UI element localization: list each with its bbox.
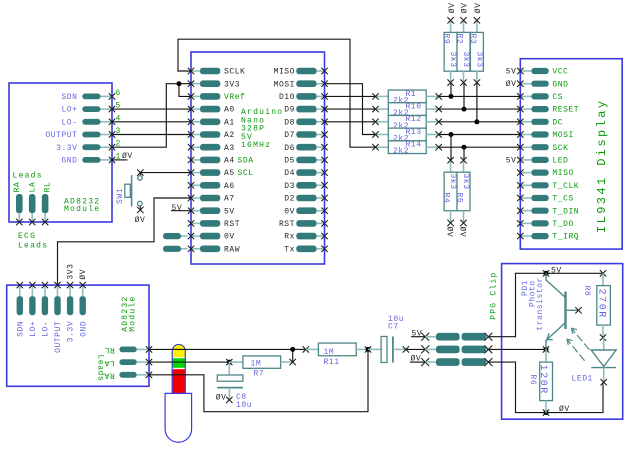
junction emitter / R6 top — [543, 346, 549, 352]
svg-text:ØV: ØV — [411, 355, 422, 364]
svg-text:SDN: SDN — [61, 93, 77, 102]
R6 reference label — [528, 375, 537, 386]
svg-text:D2: D2 — [284, 195, 295, 204]
svg-text:D5: D5 — [284, 157, 295, 166]
svg-text:1M: 1M — [251, 359, 262, 368]
svg-text:LED1: LED1 — [572, 374, 593, 383]
power 0V above R2 — [461, 2, 470, 13]
svg-text:ØV: ØV — [457, 227, 466, 238]
wire R13 to display MOSI — [439, 134, 521, 136]
wire R7 right up to tip row — [292, 349, 294, 362]
svg-text:A0: A0 — [224, 106, 235, 115]
junction R7 left / C8 — [227, 360, 232, 365]
svg-text:MOSI: MOSI — [274, 80, 295, 89]
wire D10 to R1 — [325, 95, 376, 97]
PPG Clip label vertical — [490, 271, 499, 319]
svg-text:Tx: Tx — [284, 245, 295, 254]
wire U3 RL tip row to R7/R11 node — [149, 348, 293, 350]
DS1 pins VCC..T_IRQ with pads — [517, 68, 579, 242]
wire U2 3.3V pin2 to U1 3V3 — [112, 84, 191, 148]
svg-text:Module: Module — [128, 295, 137, 331]
svg-text:120R: 120R — [537, 365, 548, 395]
power 0V label in clip — [559, 405, 570, 414]
resistor R7 1M — [226, 356, 296, 379]
switch SW1 push button — [125, 169, 144, 213]
svg-text:D6: D6 — [284, 144, 295, 153]
connector J1 TRS audio jack plug — [165, 344, 192, 442]
wire U3 RA sleeve row to ground loop — [149, 349, 368, 411]
svg-text:RESET: RESET — [552, 106, 579, 115]
wire R1 to display CS — [439, 95, 521, 97]
connector J2 PPG cable pads — [421, 333, 492, 366]
transistor PD1 photo transistor — [546, 273, 582, 349]
svg-text:VCC: VCC — [552, 68, 568, 77]
junction CS/R9 — [449, 94, 454, 99]
svg-text:A3: A3 — [224, 144, 235, 153]
svg-text:0V: 0V — [284, 207, 295, 216]
resistor R13 2k2 — [372, 128, 442, 144]
R8 reference label — [582, 286, 591, 297]
svg-text:R3: R3 — [468, 34, 477, 45]
svg-text:Rx: Rx — [284, 233, 295, 242]
svg-text:LO+: LO+ — [29, 321, 38, 337]
svg-text:A2: A2 — [224, 131, 235, 140]
PD1 labels PD1 Photo transistor — [521, 277, 545, 331]
svg-text:A7: A7 — [224, 195, 235, 204]
svg-text:GND: GND — [552, 80, 568, 89]
U2 lead pads RA LA RL (bottom) — [13, 182, 53, 226]
svg-text:3.3V: 3.3V — [67, 321, 76, 342]
wire SCLK to R14 (net SCK) — [178, 39, 376, 147]
svg-text:R6: R6 — [528, 375, 537, 386]
svg-text:R4: R4 — [441, 193, 450, 204]
svg-text:LA: LA — [29, 182, 38, 193]
resistor R8 270R vertical — [595, 270, 610, 341]
U1 right pins MISO..Tx with pads — [274, 68, 328, 255]
wire J2 5V into clip — [488, 273, 603, 336]
svg-text:Module: Module — [64, 205, 100, 214]
junction MOSI/R4 — [449, 132, 454, 137]
DS1 value IL9341 Display vertical — [595, 99, 609, 233]
svg-text:5V: 5V — [224, 207, 235, 216]
power 0V at C8 — [216, 394, 227, 403]
svg-text:R5: R5 — [454, 193, 463, 204]
svg-text:R8: R8 — [582, 286, 591, 297]
svg-text:10u: 10u — [236, 401, 252, 410]
junction 3V3/VRef — [177, 81, 182, 86]
svg-text:A6: A6 — [224, 182, 235, 191]
wire MOSI to R13 — [325, 84, 376, 135]
svg-text:ECG: ECG — [18, 232, 36, 241]
junction tip row / R7 — [290, 347, 295, 352]
resistor R2 3k3 vertical — [455, 17, 471, 86]
svg-text:D9: D9 — [284, 106, 295, 115]
svg-text:LO+: LO+ — [61, 106, 77, 115]
svg-text:RA: RA — [104, 371, 115, 380]
module U3 AD8232 ECG module (bottom-left) — [7, 285, 149, 386]
svg-text:ØV: ØV — [216, 394, 227, 403]
svg-text:MISO: MISO — [552, 169, 573, 178]
power 5V label in clip — [551, 267, 562, 276]
svg-text:OUTPUT: OUTPUT — [54, 321, 63, 353]
power 0V at U3 GND pin — [79, 269, 88, 280]
wire J2 signal to PD1 emitter / R6 — [488, 348, 546, 350]
wire U2 OUTPUT pin3 to A2 — [112, 134, 191, 136]
svg-text:C7: C7 — [388, 323, 399, 332]
svg-text:ØV: ØV — [474, 2, 483, 13]
svg-text:D3: D3 — [284, 182, 295, 191]
svg-text:RL: RL — [44, 182, 53, 193]
svg-text:5V: 5V — [551, 267, 562, 276]
svg-text:T_CS: T_CS — [552, 195, 573, 204]
wire U2 LO+ pin5 to A0 — [112, 108, 191, 110]
svg-text:A4: A4 — [224, 157, 235, 166]
SW1 reference label — [116, 188, 125, 204]
svg-text:Leads: Leads — [18, 242, 48, 251]
resistor R5 3k3 vertical — [454, 157, 470, 226]
svg-text:R11: R11 — [324, 358, 340, 367]
svg-text:ØV: ØV — [461, 2, 470, 13]
svg-text:3k3: 3k3 — [474, 52, 483, 68]
junction R11 right / C7 / ground loop — [366, 347, 371, 352]
wire A5 to SW1 — [140, 172, 191, 174]
capacitor C8 10u polarized — [217, 362, 252, 410]
svg-text:D7: D7 — [284, 131, 295, 140]
power 0V below R5 — [457, 227, 466, 238]
svg-text:SCLK: SCLK — [224, 68, 245, 77]
power 5V at display VCC — [506, 67, 517, 76]
svg-text:IL9341 Display: IL9341 Display — [595, 99, 609, 233]
svg-text:R7: R7 — [254, 370, 265, 379]
svg-text:T_DO: T_DO — [552, 220, 573, 229]
U2 right-side pins SDN LO+ LO- OUTPUT 3.3V GND with pads — [45, 89, 120, 166]
resistor R10 2k2 — [372, 103, 442, 119]
power 0V below R4 — [444, 227, 453, 238]
svg-text:3k3: 3k3 — [461, 174, 470, 190]
module DS1 IL9341 Display box — [520, 59, 622, 249]
module U1 Arduino Nano box — [191, 52, 325, 264]
svg-text:3.3V: 3.3V — [56, 144, 77, 153]
svg-text:GND: GND — [61, 157, 77, 166]
svg-text:DC: DC — [552, 118, 563, 127]
wire R5 to SCK net — [463, 147, 465, 160]
svg-text:3V3: 3V3 — [67, 264, 76, 280]
module U2 AD8232 ECG module (top-left) — [9, 83, 112, 222]
svg-text:RST: RST — [224, 220, 240, 229]
LED LED1 — [567, 328, 616, 385]
svg-text:0V: 0V — [224, 233, 235, 242]
power 5V at display LED — [506, 156, 517, 165]
U1 external pads on 0V and RAW pins — [163, 233, 188, 252]
junction DC/R3 — [474, 119, 479, 124]
power 0V at display GND — [506, 80, 517, 89]
U1 left pins SCLK..RAW with pads — [188, 68, 246, 255]
power 5V label at U1 5V pin — [171, 204, 191, 213]
svg-text:Leads: Leads — [96, 355, 105, 382]
wire C7 to connector — [406, 348, 425, 350]
wire U2 LO- pin4 to A1 — [112, 121, 191, 123]
wire R3 to DC net — [476, 83, 478, 122]
svg-text:270R: 270R — [595, 289, 606, 319]
svg-text:16MHz: 16MHz — [241, 141, 271, 150]
power 0V at J2 pin3 — [410, 355, 425, 364]
svg-text:CS: CS — [552, 93, 563, 102]
svg-text:R9: R9 — [442, 34, 451, 45]
resistor R3 3k3 vertical — [468, 17, 484, 86]
wire A7 to ECG module 2 OUTPUT — [58, 198, 192, 285]
svg-text:ØV: ØV — [122, 152, 133, 161]
LED1 reference label — [572, 374, 593, 383]
power 5V at J2 pin1 — [411, 329, 425, 338]
svg-text:SDA: SDA — [238, 157, 254, 166]
wire D8 to R12 — [325, 121, 376, 123]
svg-text:RL: RL — [104, 345, 115, 354]
svg-text:2k2: 2k2 — [393, 147, 409, 156]
U3 right pins RL LA RA with pads — [104, 345, 152, 379]
svg-text:5V: 5V — [172, 204, 183, 213]
module PPG Clip box — [502, 264, 623, 420]
resistor R12 2k2 — [372, 115, 442, 131]
svg-text:ØV: ØV — [135, 216, 146, 225]
svg-text:ØV: ØV — [444, 227, 453, 238]
svg-text:OUTPUT: OUTPUT — [45, 131, 77, 140]
svg-text:3k3: 3k3 — [461, 52, 470, 68]
svg-text:Leads: Leads — [13, 172, 43, 181]
resistor R14 2k2 — [372, 141, 442, 157]
svg-text:3V3: 3V3 — [224, 80, 240, 89]
wire D9 to R10 — [325, 108, 376, 110]
svg-text:R2: R2 — [455, 34, 464, 45]
svg-text:LA: LA — [104, 358, 115, 367]
svg-text:3k3: 3k3 — [448, 52, 457, 68]
U1 pin labels SDA SCL — [238, 157, 254, 179]
resistor R1 2k2 — [372, 90, 442, 106]
svg-text:ØV: ØV — [559, 405, 570, 414]
capacitor C7 10u polarized — [368, 315, 409, 363]
U2 value AD8232 Module — [64, 198, 100, 214]
label ECG Leads — [18, 232, 48, 251]
resistor R4 3k3 vertical — [441, 157, 457, 226]
svg-text:3k3: 3k3 — [448, 174, 457, 190]
svg-text:RST: RST — [279, 220, 295, 229]
wire R2 to RESET net — [463, 83, 465, 110]
wire R14 to display SCK — [439, 146, 521, 148]
svg-text:GND: GND — [79, 321, 88, 337]
svg-text:LED: LED — [552, 157, 568, 166]
power 3V3 at U3 3.3V pin — [67, 264, 76, 280]
svg-text:D8: D8 — [284, 118, 295, 127]
svg-text:MOSI: MOSI — [552, 131, 573, 140]
svg-text:VRef: VRef — [224, 93, 245, 102]
wire U3 LA ring row to R7 input — [149, 361, 229, 363]
svg-text:1M: 1M — [324, 348, 335, 357]
svg-text:SCL: SCL — [238, 169, 254, 178]
svg-text:RAW: RAW — [224, 245, 240, 254]
junction RESET/R2 — [462, 107, 467, 112]
svg-text:T_CLK: T_CLK — [552, 182, 579, 191]
svg-text:A5: A5 — [224, 169, 235, 178]
power 0V at U2 pin1 GND — [112, 152, 133, 161]
svg-text:MISO: MISO — [274, 68, 295, 77]
svg-text:ØV: ØV — [79, 269, 88, 280]
svg-text:5V: 5V — [506, 67, 517, 76]
junction SCK/R5 — [462, 145, 467, 150]
svg-text:SDN: SDN — [16, 321, 25, 337]
svg-text:A1: A1 — [224, 118, 235, 127]
U3 top pins SDN LO+ LO- OUTPUT 3.3V GND — [16, 282, 88, 353]
svg-text:5V: 5V — [412, 329, 423, 338]
resistor R6 120R vertical — [537, 349, 553, 412]
svg-text:PPG Clip: PPG Clip — [490, 271, 499, 319]
resistor R11 1M — [293, 343, 372, 367]
svg-text:RA: RA — [13, 182, 22, 193]
svg-text:ØV: ØV — [448, 2, 457, 13]
power 0V above R3 — [474, 2, 483, 13]
wire jog 3V3 to VRef — [179, 84, 191, 97]
svg-text:T_IRQ: T_IRQ — [552, 233, 579, 242]
svg-text:ØV: ØV — [506, 80, 517, 89]
U3 value AD8232 Module vertical — [121, 295, 138, 331]
svg-text:D10: D10 — [279, 93, 295, 102]
U2 label Leads — [13, 172, 43, 181]
wire R9 to CS net — [450, 83, 452, 97]
svg-text:T_DIN: T_DIN — [552, 207, 579, 216]
wire R10 to display RESET — [439, 108, 521, 110]
svg-text:6: 6 — [116, 89, 121, 98]
svg-text:SCK: SCK — [552, 144, 568, 153]
resistor R9 3k3 vertical — [442, 17, 458, 86]
svg-text:5V: 5V — [506, 156, 517, 165]
power 0V below SW1 — [135, 216, 146, 225]
svg-text:transistor: transistor — [536, 277, 545, 331]
U3 label Leads vertical — [96, 355, 105, 382]
wire R4 to MOSI net — [450, 135, 452, 161]
svg-text:D4: D4 — [284, 169, 295, 178]
svg-text:LO-: LO- — [61, 118, 77, 127]
wire J2 0V into clip ground — [488, 362, 603, 413]
wire R12 to display DC — [439, 121, 521, 123]
junction 5V / PD1 collector — [543, 270, 549, 276]
svg-text:SW1: SW1 — [116, 188, 125, 204]
svg-text:LO-: LO- — [42, 321, 51, 337]
junction R6 bottom / 0V — [543, 409, 549, 415]
power 0V above R9 — [448, 2, 457, 13]
U1 value Arduino Nano 328P 5V 16MHz — [241, 108, 283, 150]
